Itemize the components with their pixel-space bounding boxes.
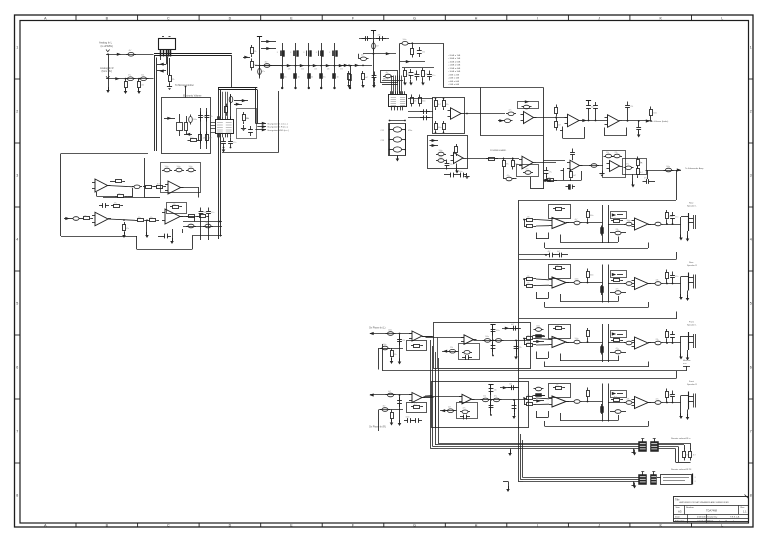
- svg-text:4k7: 4k7: [209, 137, 212, 139]
- wire I out On Phone In (L): [422, 336, 434, 338]
- wire fb h On Phone In (R): [379, 409, 403, 411]
- capacitor C37: [546, 167, 548, 171]
- input arrow: [243, 57, 250, 59]
- svg-text:47u: 47u: [614, 218, 617, 220]
- ground JACK2b: [686, 298, 690, 301]
- svg-text:8: 8: [750, 493, 752, 497]
- fb box B4: [549, 384, 571, 398]
- svg-text:100n: 100n: [165, 166, 169, 168]
- connector JACK2: [688, 273, 690, 291]
- resistor R12: [348, 71, 350, 74]
- svg-text:22k: 22k: [422, 52, 425, 54]
- resistor R41: [111, 205, 114, 207]
- resistor RC1d: [601, 226, 603, 236]
- arrow B4a: [533, 400, 544, 402]
- svg-text:47u: 47u: [262, 71, 265, 73]
- resistor RI4: [391, 410, 393, 413]
- wire A4 stub: [182, 229, 184, 233]
- wire down to bus box: [231, 56, 233, 88]
- fb box M3: [459, 344, 480, 360]
- resistor R43: [135, 220, 138, 222]
- arrow on analog R wire: [115, 77, 119, 80]
- resistor R34: [226, 104, 228, 107]
- resistor R19: [435, 98, 437, 101]
- wire top rail rear L: [519, 200, 676, 202]
- svg-text:4k7: 4k7: [265, 61, 268, 63]
- capacitor CM3c: [494, 340, 496, 342]
- connector JACK1: [688, 213, 690, 231]
- svg-text:6: 6: [16, 365, 18, 369]
- capacitor CM4d: [490, 385, 492, 389]
- resistor R13: [362, 71, 364, 74]
- U10 box: [603, 151, 626, 178]
- row tick marks and numbers: [15, 78, 21, 80]
- bus wire horizontal: [154, 53, 232, 55]
- wire P1b out: [648, 224, 653, 226]
- wire cross v1 front R: [602, 384, 604, 422]
- svg-text:Number: Number: [686, 506, 694, 509]
- capacitor C34: [595, 102, 597, 106]
- wire mid rear R: [582, 282, 603, 284]
- capacitor C46: [223, 138, 225, 142]
- resistor R38: [143, 186, 146, 188]
- rail 3: [400, 61, 425, 63]
- ground A4a: [170, 241, 174, 244]
- fb box B1b: [611, 212, 627, 219]
- svg-text:4k7: 4k7: [557, 251, 560, 253]
- capacitor C63: [447, 174, 451, 176]
- resistor R27b: [570, 169, 572, 172]
- ground C42d: [631, 185, 635, 188]
- resistor R26: [650, 107, 652, 110]
- wire M4 in: [424, 396, 463, 398]
- svg-text:100n: 100n: [485, 336, 489, 338]
- svg-text:22k: 22k: [519, 347, 522, 349]
- capacitor C42d: [643, 181, 647, 183]
- svg-text:Filename:: Filename:: [675, 521, 685, 523]
- svg-text:22k: 22k: [414, 100, 417, 102]
- capacitor CC2d: [653, 283, 655, 285]
- ground C36: [637, 135, 641, 138]
- capacitor C54: [71, 218, 73, 220]
- capacitor CC1c: [624, 224, 626, 226]
- resistor RC3d: [601, 345, 603, 355]
- capacitor C29: [446, 160, 448, 164]
- resistor R28b: [637, 166, 639, 169]
- svg-text:Navigation In R (n.c.): Navigation In R (n.c.): [268, 126, 289, 129]
- op-amp U4: [524, 112, 534, 124]
- wire mid2 rear R: [608, 283, 625, 285]
- wire cross v2 rear R: [608, 265, 610, 303]
- connector K3: [639, 475, 647, 485]
- wire U2 bottom rail: [389, 120, 406, 122]
- svg-text:47u: 47u: [190, 137, 193, 139]
- capacitor CM3h: [510, 328, 514, 330]
- capacitor C61: [412, 420, 416, 422]
- op-amp IC U1: [216, 120, 234, 134]
- svg-text:1: 1: [16, 45, 18, 49]
- wire U8 out: [622, 120, 650, 122]
- capacitor C42c: [624, 167, 626, 169]
- resistor R33: [206, 132, 208, 135]
- svg-text:100n: 100n: [536, 325, 540, 327]
- wire mid rear L: [582, 222, 603, 224]
- wire A1 fb loop: [96, 192, 98, 197]
- resistor R22: [486, 158, 489, 160]
- wire P2a out: [566, 282, 572, 284]
- op-amp P3a: [552, 337, 566, 348]
- svg-text:I: I: [537, 16, 538, 20]
- signal box L2: [161, 163, 201, 193]
- op-amp A3: [95, 212, 108, 226]
- arrow tap 2: [261, 48, 276, 50]
- resistor RC2d: [601, 285, 603, 295]
- resistor RC4d: [601, 404, 603, 414]
- wire U2 out B: [408, 117, 433, 119]
- wire left rail front R: [518, 379, 520, 429]
- resistor RC3a: [524, 338, 527, 340]
- ground stack: [396, 159, 400, 162]
- diode D1: [184, 134, 192, 136]
- arrow s2 a: [430, 140, 439, 142]
- capacitor C52: [186, 170, 188, 172]
- wire sub to block1: [676, 170, 678, 193]
- wire A2 loop: [181, 187, 200, 189]
- capacitor C53: [132, 186, 134, 188]
- svg-text:22k: 22k: [402, 340, 405, 342]
- svg-text:Front: Front: [689, 321, 694, 324]
- svg-text:1n: 1n: [284, 77, 286, 79]
- capacitor C16: [400, 43, 402, 45]
- mute box: [381, 71, 398, 83]
- svg-text:22k: 22k: [314, 68, 317, 70]
- svg-text:47u: 47u: [138, 217, 141, 219]
- capacitor C35: [627, 102, 629, 106]
- capacitor C1: [126, 54, 128, 56]
- svg-text:+18dB = 7dB: +18dB = 7dB: [448, 58, 461, 60]
- svg-text:1.1: 1.1: [743, 510, 747, 514]
- capacitor C13: [376, 38, 380, 40]
- title block: [674, 497, 749, 522]
- power bar M4: [488, 384, 493, 386]
- svg-text:To Volume (fader): To Volume (fader): [651, 120, 669, 123]
- svg-text:4k7: 4k7: [438, 104, 441, 106]
- svg-text:22k: 22k: [118, 193, 121, 195]
- op-amp U3: [451, 108, 462, 120]
- wire VCC2 stem: [373, 31, 375, 87]
- switch SW1: [686, 366, 688, 371]
- op-amp U7: [568, 114, 580, 127]
- ground bus4: [506, 489, 510, 492]
- svg-text:22k: 22k: [606, 152, 609, 154]
- left inner wire: [103, 197, 144, 199]
- wire out rear R: [663, 283, 681, 285]
- capacitor CB3a: [534, 329, 536, 331]
- svg-text:+10dB = 3dB: +10dB = 3dB: [448, 71, 461, 73]
- port symbol analog R: [106, 76, 110, 78]
- svg-text:8: 8: [16, 493, 18, 497]
- capacitor CM4h: [508, 387, 512, 389]
- bus top pair: [218, 87, 257, 89]
- fb box A4: [167, 203, 187, 214]
- capacitor CM3g: [516, 343, 518, 347]
- arrow in On Phone In (L): [369, 332, 373, 335]
- wire cross v1 front L: [602, 324, 604, 362]
- ground R12: [347, 85, 351, 88]
- op-amp P2b: [635, 278, 649, 290]
- wire eq return horizontal: [222, 152, 279, 154]
- wire U9 out: [580, 165, 603, 167]
- resistor RC3c: [587, 328, 589, 331]
- svg-text:1n: 1n: [337, 77, 339, 79]
- capacitor C42b: [612, 156, 614, 158]
- svg-text:+16dB = 6dB: +16dB = 6dB: [448, 61, 461, 63]
- wire cross v2 front R: [608, 384, 610, 422]
- arrow tap 1: [261, 41, 276, 43]
- wire bus3 bottom: [676, 462, 691, 464]
- wire in loop rear R: [524, 279, 526, 286]
- svg-text:22k: 22k: [378, 35, 381, 37]
- svg-text:100n: 100n: [438, 127, 442, 129]
- resistor R36: [113, 181, 116, 183]
- svg-text:47u: 47u: [463, 408, 466, 410]
- wire in On Phone In (L): [370, 333, 412, 335]
- arrow U1 a: [234, 104, 242, 106]
- ground U5: [455, 171, 459, 174]
- svg-text:100n: 100n: [666, 166, 670, 168]
- capacitor C30c: [503, 120, 505, 122]
- U10 right box: [623, 159, 647, 175]
- wire bottom loop1 rear L: [560, 242, 618, 244]
- wire U7 out: [582, 120, 608, 122]
- ground R3: [169, 84, 171, 87]
- resistor R19b: [435, 121, 437, 124]
- resistor R46: [197, 216, 200, 218]
- svg-text:100n: 100n: [575, 338, 579, 340]
- wire VCC stem: [259, 37, 261, 79]
- op-amp A4: [165, 209, 180, 224]
- arrow from J1 pin1: [157, 64, 166, 66]
- capacitor C27: [436, 154, 438, 156]
- resistor R23a: [556, 105, 558, 108]
- fb loop U6: [517, 165, 539, 177]
- wire P4a out: [566, 401, 572, 403]
- svg-text:47u: 47u: [616, 288, 619, 290]
- svg-text:4k7: 4k7: [157, 184, 160, 186]
- svg-text:22k: 22k: [450, 347, 453, 349]
- svg-text:100n: 100n: [439, 150, 443, 152]
- capacitor C58: [161, 236, 165, 238]
- wire in loop front L: [524, 339, 526, 346]
- wire U4 out: [534, 117, 568, 119]
- bus3 vertical joins: [431, 448, 439, 450]
- capacitor CC4e: [672, 391, 674, 395]
- wire bottom loop2 rear R: [545, 307, 648, 309]
- svg-text:+6dB = 1dB: +6dB = 1dB: [448, 78, 459, 80]
- svg-text:4k7: 4k7: [376, 46, 379, 48]
- resistor R15: [404, 68, 406, 71]
- EQ rail: [255, 65, 352, 67]
- svg-text:H: H: [475, 16, 478, 20]
- wire in On Phone In (R): [370, 394, 412, 396]
- svg-text:22k: 22k: [616, 229, 619, 231]
- capacitor CI3c: [380, 348, 382, 350]
- wire P2b out: [648, 283, 653, 285]
- resistor RC1c: [587, 209, 589, 212]
- svg-text:47u: 47u: [233, 142, 236, 144]
- resistor R11: [350, 66, 352, 88]
- arrow vol in: [164, 118, 175, 120]
- power bar VCC1: [257, 36, 262, 38]
- resistor R1: [125, 79, 127, 82]
- capacitor CC1b: [613, 232, 615, 234]
- wire row4 link: [425, 395, 432, 398]
- svg-text:TDA7468: TDA7468: [706, 509, 718, 513]
- op-amp P2a: [552, 277, 566, 288]
- op-amp IC U2: [389, 95, 407, 107]
- capacitor C21: [420, 111, 424, 113]
- svg-text:47u: 47u: [394, 354, 397, 356]
- svg-text:C12: C12: [381, 130, 384, 132]
- svg-text:6: 6: [750, 365, 752, 369]
- resistor R51: [690, 449, 692, 452]
- svg-text:Drawn by:: Drawn by:: [708, 515, 718, 518]
- ground JACK4a: [679, 416, 683, 419]
- wire mid3 to blk3: [536, 336, 545, 338]
- svg-text:Speaker L: Speaker L: [687, 324, 697, 327]
- wire mid4 to blk4: [534, 395, 545, 397]
- svg-text:47u: 47u: [114, 202, 117, 204]
- ground JACK3a: [679, 357, 683, 360]
- ground JACK1b: [686, 239, 690, 242]
- svg-text:4/26/2010: 4/26/2010: [697, 516, 708, 518]
- resistor R37: [115, 196, 118, 198]
- wire left rail front L: [518, 319, 520, 369]
- svg-text:100n: 100n: [590, 215, 594, 217]
- ground R1: [124, 91, 128, 94]
- ground R2: [137, 91, 141, 94]
- arrow in On Phone In (R): [369, 393, 373, 396]
- capacitor CC2e: [672, 272, 674, 276]
- ground analog L: [106, 90, 110, 93]
- svg-text:22k: 22k: [556, 265, 559, 267]
- op-amp M3: [464, 335, 474, 345]
- wire mute row: [383, 370, 686, 372]
- capacitor C30b: [506, 113, 508, 115]
- svg-text:1: 1: [750, 45, 752, 49]
- svg-text:L: L: [721, 523, 723, 527]
- svg-text:I: I: [537, 523, 538, 527]
- resistor RB4a: [533, 395, 536, 397]
- svg-text:1n: 1n: [298, 77, 300, 79]
- IC pin fan: [391, 76, 393, 95]
- svg-text:47u: 47u: [507, 175, 510, 177]
- bus4 wires: [523, 477, 639, 479]
- arrow M3 top: [505, 327, 509, 330]
- resistor R22d: [545, 180, 548, 182]
- arrow nav1: [262, 122, 266, 125]
- resistor R42: [124, 222, 126, 225]
- wire bottom loop2 front L: [545, 366, 648, 368]
- fb box M4: [457, 403, 478, 419]
- capacitor CI4c: [380, 409, 382, 411]
- op-amp P4b: [635, 397, 649, 409]
- resistor R22c: [512, 158, 514, 161]
- connector K1: [639, 442, 647, 452]
- op-amp P4a: [552, 396, 566, 407]
- capacitor CI4b: [399, 397, 401, 401]
- wire U4 feed: [443, 43, 445, 87]
- svg-text:47u: 47u: [506, 163, 509, 165]
- capacitor CC2a: [572, 282, 574, 284]
- op-amp U10: [610, 161, 620, 172]
- arrow eq rail 1: [287, 64, 291, 67]
- capacitor CI4: [386, 394, 388, 396]
- svg-text:22k: 22k: [527, 216, 530, 218]
- ground mid: [145, 235, 149, 238]
- svg-text:47u: 47u: [549, 172, 552, 174]
- wire fb h On Phone In (L): [379, 348, 403, 350]
- capacitor CM4e: [490, 402, 492, 406]
- svg-text:47u: 47u: [644, 178, 647, 180]
- ground R35: [243, 125, 245, 128]
- capacitor C66: [546, 254, 550, 256]
- wire M3 top: [502, 328, 521, 330]
- wire analog L: [106, 54, 154, 56]
- svg-text:4k7: 4k7: [414, 404, 417, 406]
- resistor R50: [684, 449, 686, 452]
- svg-text:22k: 22k: [173, 204, 176, 206]
- arrow M3 fb: [443, 350, 447, 353]
- wire sub feed: [543, 135, 545, 160]
- capacitor C59b: [203, 226, 205, 228]
- svg-text:22k: 22k: [84, 215, 87, 217]
- capacitor C42a: [604, 156, 606, 158]
- capacitor CM3f: [462, 357, 466, 359]
- svg-text:22k: 22k: [527, 276, 530, 278]
- feedback loop U7: [562, 127, 564, 139]
- svg-text:4k7: 4k7: [511, 324, 514, 326]
- svg-text:4k7: 4k7: [383, 405, 386, 407]
- wire vcc row: [359, 38, 389, 40]
- connector K2: [651, 442, 659, 452]
- power bar M3: [490, 324, 495, 326]
- svg-text:L: L: [721, 16, 723, 20]
- svg-text:47u: 47u: [675, 217, 678, 219]
- capacitor C3: [139, 78, 141, 80]
- capacitor C64: [457, 174, 461, 176]
- resistor R45: [186, 216, 189, 218]
- capacitor C22: [420, 117, 424, 119]
- capacitor C4: [259, 67, 261, 69]
- wire cross v1 rear L: [602, 205, 604, 243]
- resistor RC4f: [666, 389, 668, 392]
- resistor RC1b: [524, 226, 527, 228]
- svg-text:47u: 47u: [626, 164, 629, 166]
- svg-text:Sheet: Sheet: [708, 520, 714, 523]
- svg-text:2: 2: [750, 109, 752, 113]
- svg-text:100n: 100n: [669, 216, 673, 218]
- wire out front L: [663, 342, 681, 344]
- capacitor C47: [230, 138, 232, 142]
- capacitor C65: [504, 178, 506, 180]
- wire bottom loop2 rear L: [545, 248, 648, 250]
- arrow nav3: [262, 128, 266, 131]
- resistor R4: [251, 45, 253, 48]
- connector K4: [651, 475, 657, 485]
- wire in loop rear L: [524, 220, 526, 227]
- svg-text:22k: 22k: [615, 152, 618, 154]
